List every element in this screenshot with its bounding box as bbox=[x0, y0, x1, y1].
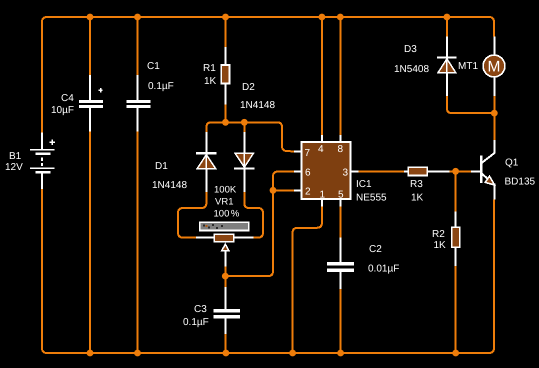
potentiometer VR1 wiper box bbox=[214, 234, 234, 242]
label C1 0.1uF bbox=[147, 61, 174, 92]
label C4 10uF bbox=[51, 93, 74, 116]
wire pin2 bbox=[273, 189, 294, 191]
svg-text:R1: R1 bbox=[203, 63, 216, 74]
svg-text:C3: C3 bbox=[194, 304, 207, 315]
wire R2 to rail bbox=[455, 266, 457, 353]
svg-text:1K: 1K bbox=[434, 240, 447, 251]
label Q1 BD135 bbox=[505, 158, 536, 188]
label C3 0.1uF bbox=[183, 304, 209, 328]
svg-text:1K: 1K bbox=[411, 193, 424, 204]
label D1 1N4148 bbox=[152, 161, 187, 191]
svg-text:1K: 1K bbox=[204, 76, 217, 87]
wire D3 bottom to motor line bbox=[447, 96, 494, 113]
wire C4 branch vertical bbox=[89, 17, 91, 353]
junction node dots bbox=[87, 14, 498, 357]
capacitor C4 bbox=[79, 75, 103, 132]
battery B1 bbox=[30, 132, 55, 189]
svg-text:B1: B1 bbox=[9, 151, 22, 162]
wire D2 drop bbox=[243, 122, 245, 132]
svg-text:0.1µF: 0.1µF bbox=[183, 317, 209, 328]
wire motor bottom to collector bbox=[493, 96, 495, 140]
svg-text:1N5408: 1N5408 bbox=[394, 64, 429, 75]
svg-text:12V: 12V bbox=[5, 162, 23, 173]
wire node to R2 bbox=[455, 171, 457, 211]
svg-text:7: 7 bbox=[305, 148, 311, 159]
label R2 1K bbox=[432, 229, 446, 251]
svg-text:R3: R3 bbox=[410, 179, 423, 190]
wire VR1 left white lead bbox=[196, 237, 214, 239]
wire base white lead bbox=[471, 170, 480, 172]
wire top rail and left rail (+12V) bbox=[42, 17, 494, 132]
svg-text:Q1: Q1 bbox=[505, 158, 519, 169]
IC1 NE555 body bbox=[302, 142, 351, 200]
wire node to pins 2 and 6 bbox=[225, 172, 294, 277]
wire C2 to rail bbox=[340, 289, 342, 353]
svg-text:1N4148: 1N4148 bbox=[152, 180, 187, 191]
wire D3 branch from rail bbox=[446, 17, 448, 36]
wire R1 bottom lead bbox=[225, 104, 227, 122]
wire C3 to rail bbox=[224, 334, 226, 353]
wire pin8 from rail bbox=[339, 17, 341, 135]
svg-text:BD135: BD135 bbox=[505, 177, 536, 188]
capacitor C1 bbox=[126, 75, 150, 132]
wire VR1 wiper down white bbox=[224, 251, 226, 267]
wire R3 to base node bbox=[449, 170, 471, 172]
motor MT1 bbox=[483, 55, 505, 77]
svg-text:5: 5 bbox=[338, 190, 344, 201]
resistor R3 bbox=[404, 167, 449, 175]
diode D3 1N5408 bbox=[437, 36, 457, 95]
svg-text:MT1: MT1 bbox=[458, 61, 478, 72]
wire pin5 to C2 bbox=[340, 206, 342, 237]
svg-text:D3: D3 bbox=[404, 44, 417, 55]
wire node down to C3 bbox=[224, 276, 226, 287]
motor MT1 leads bbox=[493, 36, 495, 95]
svg-text:100%: 100% bbox=[214, 209, 240, 220]
svg-text:C1: C1 bbox=[147, 61, 160, 72]
label D2 1N4148 bbox=[240, 82, 275, 111]
svg-text:8: 8 bbox=[338, 144, 344, 155]
wire horizontal node to pin7 bbox=[206, 122, 294, 151]
label B1 12V bbox=[5, 151, 23, 173]
svg-text:M: M bbox=[488, 59, 501, 76]
wire wiper to node bbox=[224, 267, 226, 276]
label D3 1N5408 bbox=[394, 44, 429, 75]
svg-text:D2: D2 bbox=[242, 82, 255, 93]
svg-text:10µF: 10µF bbox=[51, 105, 74, 116]
svg-text:3: 3 bbox=[343, 168, 349, 179]
wire D2 to VR1 right loop bbox=[244, 192, 263, 238]
svg-text:R2: R2 bbox=[432, 229, 445, 240]
wire pin4 from rail bbox=[321, 17, 323, 135]
resistor R1 bbox=[221, 47, 229, 104]
svg-text:4: 4 bbox=[318, 144, 324, 155]
svg-text:1: 1 bbox=[320, 190, 326, 201]
resistor R2 bbox=[452, 212, 460, 267]
svg-text:C4: C4 bbox=[61, 93, 74, 104]
svg-text:6: 6 bbox=[305, 168, 311, 179]
svg-text:IC1: IC1 bbox=[356, 179, 372, 190]
svg-text:100K: 100K bbox=[214, 185, 237, 196]
svg-text:VR1: VR1 bbox=[215, 197, 233, 208]
label R1 1K bbox=[203, 63, 217, 87]
svg-text:D1: D1 bbox=[155, 161, 168, 172]
potentiometer VR1 track bbox=[200, 222, 249, 230]
svg-text:0.01µF: 0.01µF bbox=[368, 264, 399, 275]
diode D2 1N4148 bbox=[234, 132, 254, 192]
transistor Q1 BD135 bbox=[481, 140, 494, 200]
IC pin stubs bbox=[294, 135, 359, 206]
wire bottom rail (0V) from battery negative to Q1 emitter bbox=[42, 189, 494, 353]
svg-text:0.1µF: 0.1µF bbox=[148, 81, 174, 92]
wire D1 to VR1 left loop bbox=[178, 192, 206, 238]
label R3 1K bbox=[410, 179, 424, 204]
label IC1 NE555 bbox=[356, 179, 387, 204]
svg-text:1N4148: 1N4148 bbox=[240, 100, 275, 111]
potentiometer VR1 wiper arrow bbox=[222, 244, 229, 250]
wire pin3 to R3 bbox=[359, 171, 405, 173]
wire pin1 to rail bbox=[293, 206, 322, 353]
capacitor C2 bbox=[327, 238, 354, 289]
capacitor C3 bbox=[213, 287, 240, 334]
svg-text:NE555: NE555 bbox=[356, 193, 387, 204]
svg-text:C2: C2 bbox=[369, 244, 382, 255]
wire C1 branch vertical bbox=[137, 17, 139, 353]
svg-text:2: 2 bbox=[305, 187, 311, 198]
wire R1 top lead bbox=[225, 17, 227, 47]
label VR1 100K 100% bbox=[214, 185, 240, 220]
diode D1 1N4148 bbox=[196, 132, 216, 192]
label C2 0.01uF bbox=[368, 244, 399, 275]
wire VR1 right white lead bbox=[234, 237, 254, 239]
